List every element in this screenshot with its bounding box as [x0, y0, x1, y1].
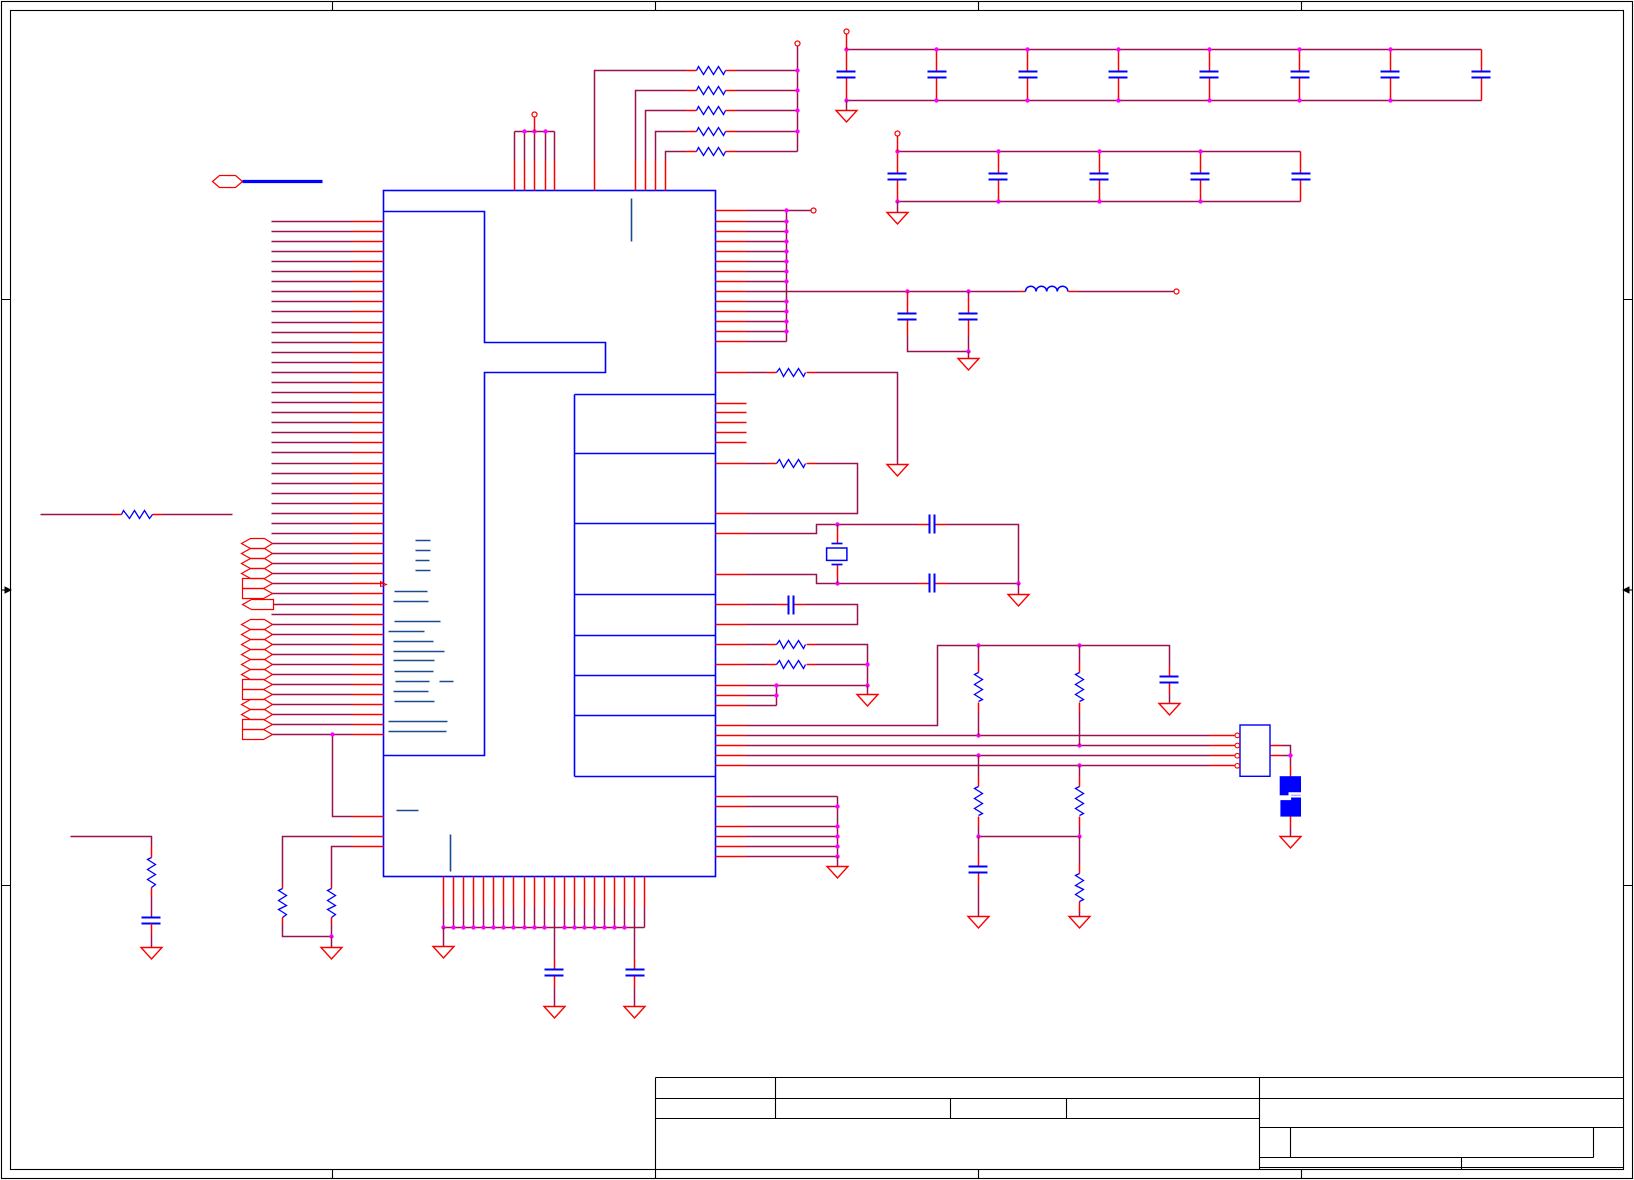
- wire XTAL bottom: [747, 575, 1019, 584]
- junctions: [865, 662, 869, 666]
- pin 584 clock bubble: [381, 582, 387, 587]
- junctions: [976, 834, 980, 838]
- U1 right pin 665 stub: [716, 664, 747, 666]
- capacitor C18 leads: [978, 855, 980, 885]
- U1 right pin 725 stub: [716, 725, 747, 727]
- ground: [1280, 837, 1301, 849]
- wire R12 right: [817, 645, 868, 686]
- resistor R7: [777, 460, 806, 468]
- U1 right pin 645 stub: [716, 644, 747, 646]
- U1 top pins group A stubs: [515, 161, 555, 191]
- ground stem: [1169, 694, 1171, 704]
- IC U1 hidden-pin marks (dark): [389, 199, 632, 872]
- capacitor C15: [1291, 71, 1310, 73]
- bus segment (thick blue): [243, 180, 323, 183]
- capacitor C3: [1160, 676, 1179, 678]
- wire net-B left: [41, 514, 112, 516]
- wire L-net: [747, 291, 1019, 293]
- capacitor C22: [1090, 173, 1109, 175]
- wire R11 bottom: [331, 924, 333, 937]
- capacitor C6: [959, 313, 978, 315]
- wire R17 top: [1079, 766, 1081, 777]
- ground stem: [1290, 828, 1292, 837]
- terminal T1: [532, 112, 537, 117]
- fuse F1 lead top: [1290, 766, 1292, 777]
- resistor R11: [328, 889, 336, 918]
- resistor R10: [279, 889, 287, 918]
- connector J1 body: [1240, 725, 1270, 776]
- capacitor C6 leads: [968, 298, 970, 336]
- U1 right pins top group stubs: [716, 211, 747, 342]
- capacitor C2 leads: [634, 959, 636, 988]
- wire R7 loop: [747, 464, 858, 514]
- U1 right pin 534 stub: [716, 533, 747, 535]
- resistor R15 leads: [1079, 663, 1081, 713]
- capacitor C8 leads: [918, 583, 948, 585]
- capacitor C5 leads: [907, 292, 909, 336]
- ground: [1159, 704, 1180, 716]
- ground: [141, 948, 162, 960]
- junctions: [784, 208, 788, 212]
- ground stem: [151, 935, 153, 948]
- wire pin-846: [332, 847, 353, 885]
- U1 right pins 685-705 stubs: [716, 686, 747, 706]
- resistor R16 leads: [978, 777, 980, 827]
- resistor R3: [697, 107, 726, 115]
- U1 right pin 625 stub: [716, 624, 747, 626]
- resistor R10 leads: [282, 885, 284, 924]
- capacitor C10: [837, 71, 856, 73]
- connector J1 right pin leads: [1271, 746, 1282, 756]
- connector stub leads: [1210, 736, 1235, 766]
- terminal stem: [534, 118, 536, 132]
- capacitor C17: [1472, 71, 1491, 73]
- capacitor C4 leads: [777, 604, 807, 606]
- wire R14 bottom: [978, 713, 980, 736]
- ground: [857, 695, 878, 707]
- ground: [1069, 917, 1090, 929]
- wire net-B right: [163, 514, 233, 516]
- capacitor C9 lead: [151, 924, 153, 935]
- capacitor C1: [545, 969, 564, 971]
- ground stem: [331, 937, 333, 948]
- terminal T4: [895, 131, 900, 136]
- ground: [544, 1007, 565, 1019]
- left port flag (reversed): [243, 600, 274, 610]
- wire R6 to ground: [817, 373, 898, 465]
- ground: [836, 111, 857, 123]
- U1 right pin 372 stub: [716, 372, 747, 374]
- junctions: [905, 289, 909, 293]
- cap bank 2 leads: [898, 152, 1301, 202]
- resistor R14: [975, 673, 983, 702]
- resistor R11 leads: [331, 885, 333, 924]
- IC U1 right sub-block column: [575, 395, 716, 777]
- sheet centering arrow left: [2, 589, 6, 591]
- U1 right pin 513 stub: [716, 513, 747, 515]
- ground stem: [846, 101, 848, 111]
- wire R13 right: [817, 664, 868, 666]
- connector J1 pin circles: [1235, 733, 1240, 738]
- resistor R17 leads: [1079, 777, 1081, 827]
- resistor R2: [697, 87, 726, 95]
- capacitor C14: [1200, 71, 1219, 73]
- capacitor C16: [1381, 71, 1400, 73]
- IC U1 inner section outline: [384, 212, 606, 756]
- U1 right bus pins stubs: [716, 736, 747, 766]
- capacitor C23: [1191, 173, 1210, 175]
- ground: [887, 465, 908, 477]
- capacitor C20: [888, 173, 907, 175]
- U1 top pins group A wires: [515, 132, 555, 161]
- U1 right no-connect stubs: [716, 404, 747, 443]
- ground: [887, 213, 908, 225]
- wire XTAL top: [747, 525, 1019, 584]
- U1 right pins lower group wires: [747, 797, 838, 857]
- capacitor C8: [929, 574, 931, 593]
- wire net 695: [747, 695, 777, 697]
- capacitor C7: [929, 515, 931, 534]
- wire net 685: [747, 685, 868, 687]
- ground: [321, 948, 342, 960]
- cap bank 2 rails: [898, 152, 1301, 202]
- resistor R9 leads: [151, 846, 153, 897]
- inductor L1 leads: [1019, 291, 1079, 293]
- capacitor C24: [1292, 173, 1311, 175]
- resistor R16: [975, 787, 983, 816]
- ground stem: [443, 928, 445, 947]
- ground stem: [897, 202, 899, 213]
- wire VCC net: [747, 646, 1170, 726]
- U1 bottom pin wires: [444, 908, 645, 928]
- inductor L1: [1026, 286, 1068, 291]
- ground: [624, 1007, 645, 1019]
- resistor R15: [1076, 673, 1084, 702]
- resistor R8: [122, 511, 153, 519]
- resistor R17: [1076, 787, 1084, 816]
- capacitor C13: [1109, 71, 1128, 73]
- ground stem: [1018, 584, 1020, 595]
- resistor R5: [697, 148, 726, 156]
- cap bank 2 junctions: [895, 149, 899, 153]
- wire R18 bottom: [1079, 912, 1081, 917]
- resistor R8 leads: [112, 514, 163, 516]
- ground stem: [837, 857, 839, 867]
- wire net 705: [747, 686, 777, 706]
- wire R7 net: [747, 463, 767, 465]
- ground stem: [968, 352, 970, 359]
- wire R6 net: [747, 372, 767, 374]
- wire C2 top: [634, 928, 636, 959]
- capacitor C12: [1019, 71, 1038, 73]
- cap bank 1 leads: [847, 50, 1482, 101]
- U1 right pin 605 stub: [716, 604, 747, 606]
- resistor R12: [777, 641, 806, 649]
- terminal stem: [897, 137, 899, 152]
- ground: [1008, 595, 1029, 607]
- wire pin-836: [283, 837, 353, 885]
- port P1 (hexagon): [213, 176, 243, 188]
- resistor R12 leads: [767, 644, 817, 646]
- junctions: [795, 68, 799, 72]
- crystal Y1 stem: [837, 525, 839, 584]
- crystal Y1: [832, 543, 843, 545]
- junctions: [835, 804, 839, 808]
- fuse F1 (blue blocks): [1280, 776, 1301, 795]
- capacitor C7 leads: [918, 524, 948, 526]
- junctions: [976, 733, 980, 737]
- left port flags (hexagon nodes): [242, 539, 273, 549]
- wire C4 loop: [747, 605, 858, 625]
- U1 right pins lower group stubs: [716, 797, 747, 857]
- fuse F1 lead bottom: [1290, 817, 1292, 828]
- U1 bottom pin stubs: [444, 877, 645, 908]
- resistor R6 leads: [767, 372, 817, 374]
- resistor ladder wires: [595, 71, 798, 161]
- capacitor C21: [989, 173, 1008, 175]
- wire R9 to C9: [151, 897, 153, 918]
- wire C6 stem: [968, 292, 970, 352]
- resistor R1: [697, 67, 726, 75]
- wire net row-735 to pin-816: [333, 735, 353, 817]
- wire C18 top: [978, 837, 980, 855]
- resistor R18: [1076, 874, 1084, 902]
- terminal T5: [811, 208, 816, 213]
- U1 top pins group B stubs: [595, 161, 666, 191]
- ground: [433, 947, 454, 959]
- terminal T3: [844, 29, 849, 34]
- wire R15 top: [1079, 646, 1081, 663]
- U1 left pin wires: [272, 222, 353, 735]
- U1 right pins top group wires: [747, 211, 811, 342]
- cap bank 1 rails: [847, 50, 1482, 101]
- U1 right pin 575 stub: [716, 574, 747, 576]
- ground stem: [867, 686, 869, 695]
- wire R17 bottom: [1079, 827, 1081, 837]
- wire R13 net: [747, 664, 767, 666]
- wire R18 top: [1079, 837, 1081, 864]
- capacitor C1 leads: [554, 959, 556, 988]
- capacitor C11: [928, 71, 947, 73]
- cap bank 1 junctions: [844, 47, 848, 51]
- ground: [827, 867, 848, 879]
- resistor R14 leads: [978, 663, 980, 713]
- left port flags (arrow banners): [243, 579, 273, 589]
- connector J1 right wires: [1282, 746, 1291, 766]
- wire R14 top: [978, 646, 980, 663]
- resistor R13: [777, 661, 806, 669]
- ground: [968, 917, 989, 929]
- junctions: [522, 129, 526, 133]
- wire R16 bottom: [979, 827, 1080, 837]
- U1 left pin stubs (red): [353, 222, 384, 847]
- capacitor C4: [788, 596, 790, 615]
- resistor R6: [777, 369, 806, 377]
- U1 right pin 463 stub: [716, 463, 747, 465]
- wire L1 to terminal: [1079, 291, 1174, 293]
- capacitor C5: [898, 313, 917, 315]
- junctions: [976, 643, 980, 647]
- wire C4 net top: [747, 604, 777, 606]
- junctions: [441, 925, 445, 929]
- capacitor C3 leads: [1169, 667, 1171, 694]
- resistor R9: [148, 858, 156, 888]
- resistor ladder red leads: [687, 71, 737, 152]
- wire net-A: [71, 837, 152, 846]
- IC U1 outline: [384, 191, 716, 877]
- wire C1 bottom: [554, 988, 556, 1007]
- terminal T6: [1174, 289, 1179, 294]
- wire R16 top: [978, 756, 980, 777]
- resistor R18 leads: [1079, 864, 1081, 912]
- junction: [330, 732, 334, 736]
- capacitor C18: [969, 866, 988, 868]
- resistor R7 leads: [767, 463, 817, 465]
- wire C18 bottom: [978, 885, 980, 917]
- wire C2 bottom: [634, 988, 636, 1007]
- junctions: [835, 522, 839, 526]
- title block: [656, 1078, 1624, 1170]
- terminal T2: [795, 41, 800, 46]
- sheet centering arrow right: [1629, 589, 1633, 591]
- junction: [329, 934, 333, 938]
- junction: [966, 349, 970, 353]
- wire C5 bottom: [908, 336, 969, 352]
- bus wires to connector: [747, 736, 1210, 766]
- ground: [958, 359, 979, 371]
- resistor R13 leads: [767, 664, 817, 666]
- ladder trunk wire: [797, 47, 799, 152]
- crystal Y1 leads: [837, 530, 839, 579]
- junction: [1288, 753, 1292, 757]
- wire C1 top: [554, 928, 556, 959]
- capacitor C2: [626, 969, 645, 971]
- resistor R4: [697, 128, 726, 136]
- wire R10 bottom: [283, 924, 332, 937]
- wire R15 bottom: [1079, 713, 1081, 746]
- terminal stem: [846, 35, 848, 50]
- wire R12 net: [747, 644, 767, 646]
- capacitor C9: [142, 917, 161, 919]
